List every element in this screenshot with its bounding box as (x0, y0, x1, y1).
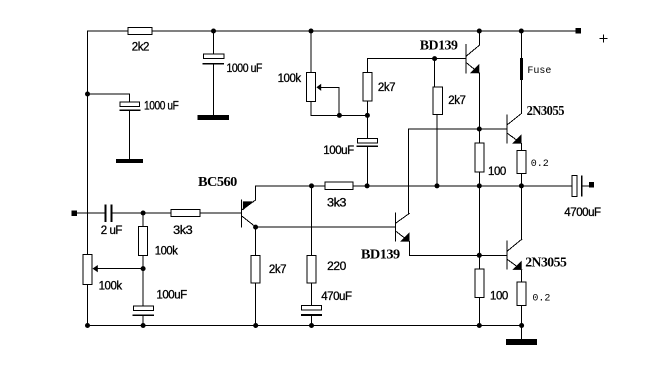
svg-text:100k: 100k (99, 280, 123, 292)
wire C2 to ground (129, 111, 131, 159)
wire Q1 emitter down (478, 73, 480, 129)
wire C7 to node (112, 212, 171, 214)
wire input (77, 212, 105, 214)
resistor R6 3k3 feedback (325, 182, 353, 189)
capacitor C5 470uF (302, 306, 322, 310)
node rail R9 (253, 323, 258, 328)
wire bottom rail (88, 325, 522, 327)
wire VR1 bottom (311, 102, 367, 116)
svg-text:BD139: BD139 (420, 39, 458, 54)
capacitor C2 1000uF (120, 102, 140, 106)
node fuse top (519, 29, 524, 34)
resistor R4 100 (475, 143, 484, 172)
node wiper junction (337, 113, 342, 118)
svg-text:4700uF: 4700uF (564, 207, 601, 219)
wire Q3 collector to Q4 base (256, 226, 396, 228)
wire R11 riser (478, 186, 480, 269)
svg-text:2k7: 2k7 (448, 95, 465, 107)
node top C1 (211, 29, 216, 34)
resistor R11 100 (475, 269, 484, 297)
wire R10 to C5 (311, 283, 313, 306)
capacitor C3 100uF (357, 139, 377, 143)
wire R4 top (478, 129, 480, 143)
svg-text:BD139: BD139 (361, 247, 400, 262)
svg-text:0.2: 0.2 (532, 294, 550, 305)
terminal output (589, 182, 594, 187)
node rail ground (519, 323, 524, 328)
svg-text:2 uF: 2 uF (101, 225, 123, 237)
node rail R4 (477, 183, 482, 188)
resistor R9 2k7 (251, 256, 260, 284)
svg-text:3k3: 3k3 (327, 198, 346, 210)
wiper VR1 (316, 84, 321, 91)
wire to fuse (520, 31, 522, 58)
svg-text:100: 100 (488, 166, 506, 178)
wire Q2 emitter (521, 144, 523, 151)
svg-text:100: 100 (490, 290, 508, 302)
wire to C2 (88, 94, 130, 102)
wire to VR1 (310, 31, 312, 72)
wire C5 to rail (311, 316, 313, 326)
svg-text:1000 uF: 1000 uF (227, 63, 263, 75)
node R2 bottom junction (365, 113, 370, 118)
resistor R8 100k (139, 227, 148, 256)
wire Q4 emitter (410, 242, 508, 256)
capacitor C6 4700uF (572, 175, 577, 196)
capacitor C4 100uF (133, 306, 153, 310)
svg-text:100uF: 100uF (156, 289, 187, 301)
node rail R11 (477, 323, 482, 328)
wire riser to Q4 collector (408, 129, 410, 213)
terminal V+ (576, 28, 581, 33)
svg-text:BC560: BC560 (198, 175, 237, 190)
svg-text:2k2: 2k2 (132, 42, 149, 54)
wire Q5 emitter (521, 270, 523, 282)
resistor R2 2k7 (363, 72, 372, 101)
capacitor C7 2uF (105, 205, 107, 222)
resistor R12 0.2 (517, 282, 526, 306)
wire left rail upper (87, 31, 89, 254)
svg-text:1000 uF: 1000 uF (144, 101, 179, 113)
node Q3 collector (253, 225, 258, 230)
svg-text:100k: 100k (278, 73, 302, 85)
ground G2 (116, 159, 143, 163)
svg-text:2k7: 2k7 (378, 82, 395, 94)
wire to ground (521, 326, 523, 340)
ground G1 (198, 115, 229, 120)
wire R7 to Q3 base (200, 212, 242, 214)
wire C4 to rail (142, 316, 144, 325)
fuse F1 (520, 58, 523, 80)
capacitor C1 1000uF (204, 54, 224, 58)
wire C3 to rail (366, 147, 368, 186)
svg-text:Fuse: Fuse (527, 66, 551, 77)
svg-text:0.2: 0.2 (531, 159, 549, 170)
node rail 220 (309, 183, 314, 188)
node rail C5 (309, 323, 314, 328)
wire drive bus (409, 128, 507, 130)
node A junction (85, 92, 90, 97)
node D drive junction (477, 127, 482, 132)
node R3 top (432, 56, 437, 61)
wire R8 bottom (142, 256, 144, 306)
wire node B to R2 (366, 59, 368, 73)
node rail R3 (435, 183, 440, 188)
node emitter bus (477, 253, 482, 258)
wire R9 to rail (255, 283, 257, 325)
wire R4 to rail (478, 172, 480, 186)
wire R12 to rail (521, 306, 523, 326)
potentiometer VR2 100k (83, 254, 92, 284)
svg-text:2N3055: 2N3055 (525, 255, 567, 270)
wire R9 top (255, 227, 257, 256)
svg-text:2k7: 2k7 (269, 264, 286, 276)
svg-text:100k: 100k (155, 246, 178, 258)
node wiper2 junction (141, 266, 146, 271)
wiper VR2 (98, 268, 143, 270)
wire 220 riser (311, 186, 313, 256)
wire C1 to ground (213, 65, 215, 115)
svg-text:100uF: 100uF (323, 145, 354, 157)
wire to C1 (213, 31, 215, 54)
node input junction (141, 211, 146, 216)
node rail C4 (141, 323, 146, 328)
wire R5 to rail (521, 173, 523, 186)
svg-text:3k3: 3k3 (173, 225, 192, 237)
node rail left (85, 323, 90, 328)
resistor R3 2k7 (433, 87, 443, 115)
wire R8 top (142, 213, 144, 227)
svg-text:2N3055: 2N3055 (527, 104, 565, 119)
wire base feed Q1 (367, 58, 465, 60)
resistor R5 0.2 (517, 151, 526, 174)
resistor R10 220 (307, 256, 316, 284)
wire node to R3 (434, 59, 436, 87)
terminal input (71, 210, 77, 216)
resistor R7 3k3 input (171, 209, 200, 216)
wire top rail (88, 30, 576, 32)
ground G3 (506, 339, 537, 345)
wire VR2 bottom (87, 284, 89, 325)
wire R3 to rail (436, 115, 438, 186)
node rail C3 (365, 183, 370, 188)
node Q1 collector rail (477, 29, 482, 34)
node rail output (519, 183, 524, 188)
label + (600, 38, 607, 40)
resistor R1 2k2 (128, 27, 152, 34)
node top VR1 (309, 29, 314, 34)
svg-text:470uF: 470uF (321, 291, 352, 303)
wire output rail (256, 185, 572, 187)
wire R2 to C3 (366, 101, 368, 139)
svg-text:220: 220 (327, 261, 346, 273)
potentiometer VR1 100k (307, 72, 316, 101)
wire R11 to rail (478, 297, 480, 325)
